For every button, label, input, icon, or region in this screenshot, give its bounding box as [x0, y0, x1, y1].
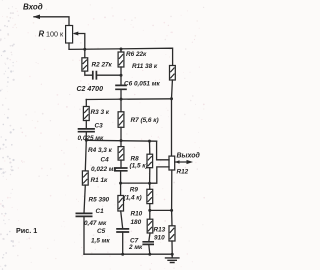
wire R5 to C5	[121, 211, 123, 229]
wire R12 wiper output	[175, 161, 191, 163]
resistor R1	[82, 171, 88, 185]
node junction R8 top	[148, 140, 151, 143]
svg-text:180: 180	[131, 219, 142, 226]
wire R13 to bottom rail	[171, 241, 173, 254]
potentiometer R wiper	[75, 34, 85, 50]
wire mid rail to R7	[120, 99, 122, 112]
wire input line	[34, 17, 69, 26]
svg-text:2 мк: 2 мк	[128, 244, 143, 251]
wire top rail to R6	[120, 49, 122, 52]
wire node to R10	[149, 210, 151, 219]
wire feedback rail	[86, 139, 156, 142]
svg-text:R4 3,3 к: R4 3,3 к	[88, 147, 113, 154]
wire C3 to node	[85, 132, 87, 141]
wire node to R5	[120, 183, 122, 195]
wire R8 node step to R12 lower stub	[150, 167, 169, 183]
node junction C7/bottom rail	[148, 253, 151, 256]
node junction R9/R10	[148, 209, 151, 212]
wire R4 to C4	[120, 160, 122, 168]
capacitor C7	[142, 242, 154, 245]
capacitor C3	[78, 129, 95, 132]
wire node to R4	[120, 141, 122, 147]
wire R10 to C7	[149, 233, 150, 242]
node junction C6/mid rail	[120, 98, 123, 101]
wire R2 bottom to C2	[85, 71, 92, 75]
node junction C2/R6/C6	[120, 74, 123, 77]
svg-text:910: 910	[154, 234, 165, 241]
svg-text:R5 390: R5 390	[89, 196, 110, 203]
capacitor C1	[76, 213, 93, 216]
svg-text:(1,5 к): (1,5 к)	[130, 163, 148, 170]
wire C2 to node	[97, 74, 121, 76]
capacitor C5	[116, 229, 129, 232]
node junction C4/R5	[119, 182, 122, 185]
potentiometer R 100к	[66, 26, 73, 44]
wire node210 connector	[150, 209, 172, 211]
svg-text:С4: С4	[101, 156, 110, 163]
wire R7 to node	[120, 127, 122, 140]
svg-text:R11 38 к: R11 38 к	[132, 63, 158, 70]
wire mid rail to R3	[85, 100, 87, 107]
svg-text:R2 27к: R2 27к	[92, 61, 113, 68]
potentiometer R12	[169, 156, 175, 170]
ground	[165, 254, 180, 262]
node junction ground	[171, 253, 174, 256]
resistor R11	[170, 66, 176, 81]
wire C7 to bottom rail	[149, 244, 150, 254]
input arrowhead	[33, 15, 40, 20]
svg-text:R: R	[39, 30, 45, 39]
svg-text:0,022 мк: 0,022 мк	[91, 166, 117, 173]
capacitor C2	[93, 71, 97, 80]
node junction C5/bottom rail	[121, 253, 124, 256]
svg-text:R10: R10	[131, 210, 143, 217]
resistor R2	[82, 58, 88, 71]
wire node210 to R13	[171, 210, 173, 225]
resistor R5	[118, 196, 124, 212]
svg-text:R9: R9	[130, 187, 139, 194]
node junction wiper/top rail	[83, 48, 86, 51]
wire R9 to node	[149, 204, 151, 211]
svg-text:С5: С5	[97, 228, 106, 235]
wire C4 to node	[120, 171, 122, 183]
wire C6 to mid rail	[120, 89, 122, 99]
svg-text:(1,4 к): (1,4 к)	[124, 194, 142, 201]
resistor R13	[169, 226, 175, 241]
wire mid rail	[86, 98, 171, 101]
R12 wiper arrowhead	[175, 160, 180, 164]
capacitor C4	[114, 168, 128, 171]
wire C5 to bottom rail	[122, 232, 124, 254]
svg-text:Вход: Вход	[23, 2, 43, 11]
svg-text:R1 1к: R1 1к	[91, 177, 108, 184]
svg-text:R3 3 к: R3 3 к	[91, 109, 110, 116]
wire node to R9	[149, 183, 151, 189]
wire R8 to node	[149, 168, 151, 183]
node junction R7/R4	[120, 139, 123, 142]
node junction R11/mid rail	[170, 97, 173, 100]
resistor R8	[147, 154, 153, 168]
wire node140 to R8	[149, 141, 151, 154]
wire R12 bottom to node210	[171, 170, 173, 210]
wire bottom rail	[84, 253, 172, 255]
wire node to R1	[85, 140, 86, 171]
wire R6 to C6	[120, 67, 122, 85]
svg-text:R6 22к: R6 22к	[126, 51, 147, 58]
wire R3 to C3	[85, 121, 87, 129]
node junction C3/R1	[85, 139, 88, 142]
svg-text:Рис. 1: Рис. 1	[16, 226, 37, 235]
svg-text:R7 (5,6 к): R7 (5,6 к)	[131, 117, 159, 124]
node junction R12-R13 rail	[170, 209, 173, 212]
wire C1 to bottom rail	[83, 216, 85, 254]
svg-text:Выход: Выход	[177, 151, 201, 159]
svg-text:100 к: 100 к	[46, 29, 64, 38]
resistor R4	[118, 147, 124, 161]
wire R1 to C1	[84, 185, 85, 213]
svg-text:0,47 мк: 0,47 мк	[84, 220, 107, 227]
wire node140 to R12 upper stub	[157, 141, 169, 160]
svg-text:С2 4700: С2 4700	[77, 86, 104, 93]
svg-text:С3: С3	[95, 123, 104, 130]
svg-text:R12: R12	[177, 168, 189, 175]
wire top rail	[69, 43, 173, 66]
node junction R8/R9	[148, 182, 151, 185]
svg-text:R8: R8	[131, 155, 140, 162]
resistor R10	[147, 219, 153, 233]
wire R11 to mid rail	[171, 80, 174, 156]
svg-text:С6 0,051 мк: С6 0,051 мк	[124, 81, 160, 88]
resistor R6	[118, 52, 124, 67]
node junction R6 top	[120, 48, 123, 51]
svg-text:1,5 мк: 1,5 мк	[91, 237, 110, 244]
resistor R9	[147, 189, 153, 203]
wire wiper to R2	[84, 49, 86, 58]
svg-text:R13: R13	[154, 226, 166, 233]
resistor R7	[118, 112, 124, 128]
output arrowhead	[187, 160, 194, 164]
capacitor C6	[115, 85, 127, 89]
wire node to R8 bottom node	[121, 182, 150, 184]
resistor R3	[83, 107, 89, 121]
svg-text:С1: С1	[96, 208, 105, 215]
